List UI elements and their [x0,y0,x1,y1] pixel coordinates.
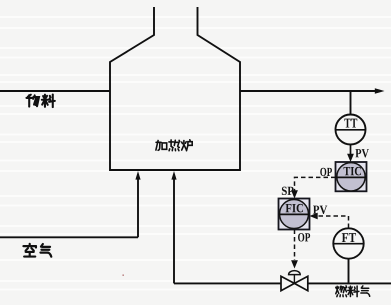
temperature controller TIC [336,162,367,191]
OP arrowhead at valve [291,260,298,268]
label 燃料气 [336,286,370,297]
label OP [320,168,332,176]
control valve body [281,276,308,290]
outlet pipe [240,90,378,92]
label SP [282,187,294,195]
fuel gas pipe [174,282,391,284]
SP signal TIC to FIC (dashed) [295,177,336,190]
PV signal TT to TIC [347,145,354,163]
label PV (FIC) [313,206,327,214]
flow controller FIC [279,199,310,230]
label PV [355,149,369,157]
flow transmitter FT [333,228,363,258]
FT tap line to fuel pipe [348,259,350,284]
SP arrowhead [291,190,298,198]
air pipe 空气 [0,171,141,237]
label 空气 [23,244,51,257]
furnace label 加热炉 [156,140,192,151]
label OP (FIC) [298,233,310,241]
temperature transmitter TT [336,115,366,145]
control valve actuator [289,271,301,284]
outlet arrowhead [375,88,385,94]
label 物料 [26,95,54,108]
TT tap line [350,91,352,115]
feed pipe 物料 [0,90,110,92]
PV signal FT to FIC (dashed) [318,216,349,228]
furnace outline [110,7,240,170]
fuel riser to furnace [171,171,176,283]
OP signal FIC to valve (dashed) [294,230,296,261]
PV arrowhead into FIC [310,213,318,220]
